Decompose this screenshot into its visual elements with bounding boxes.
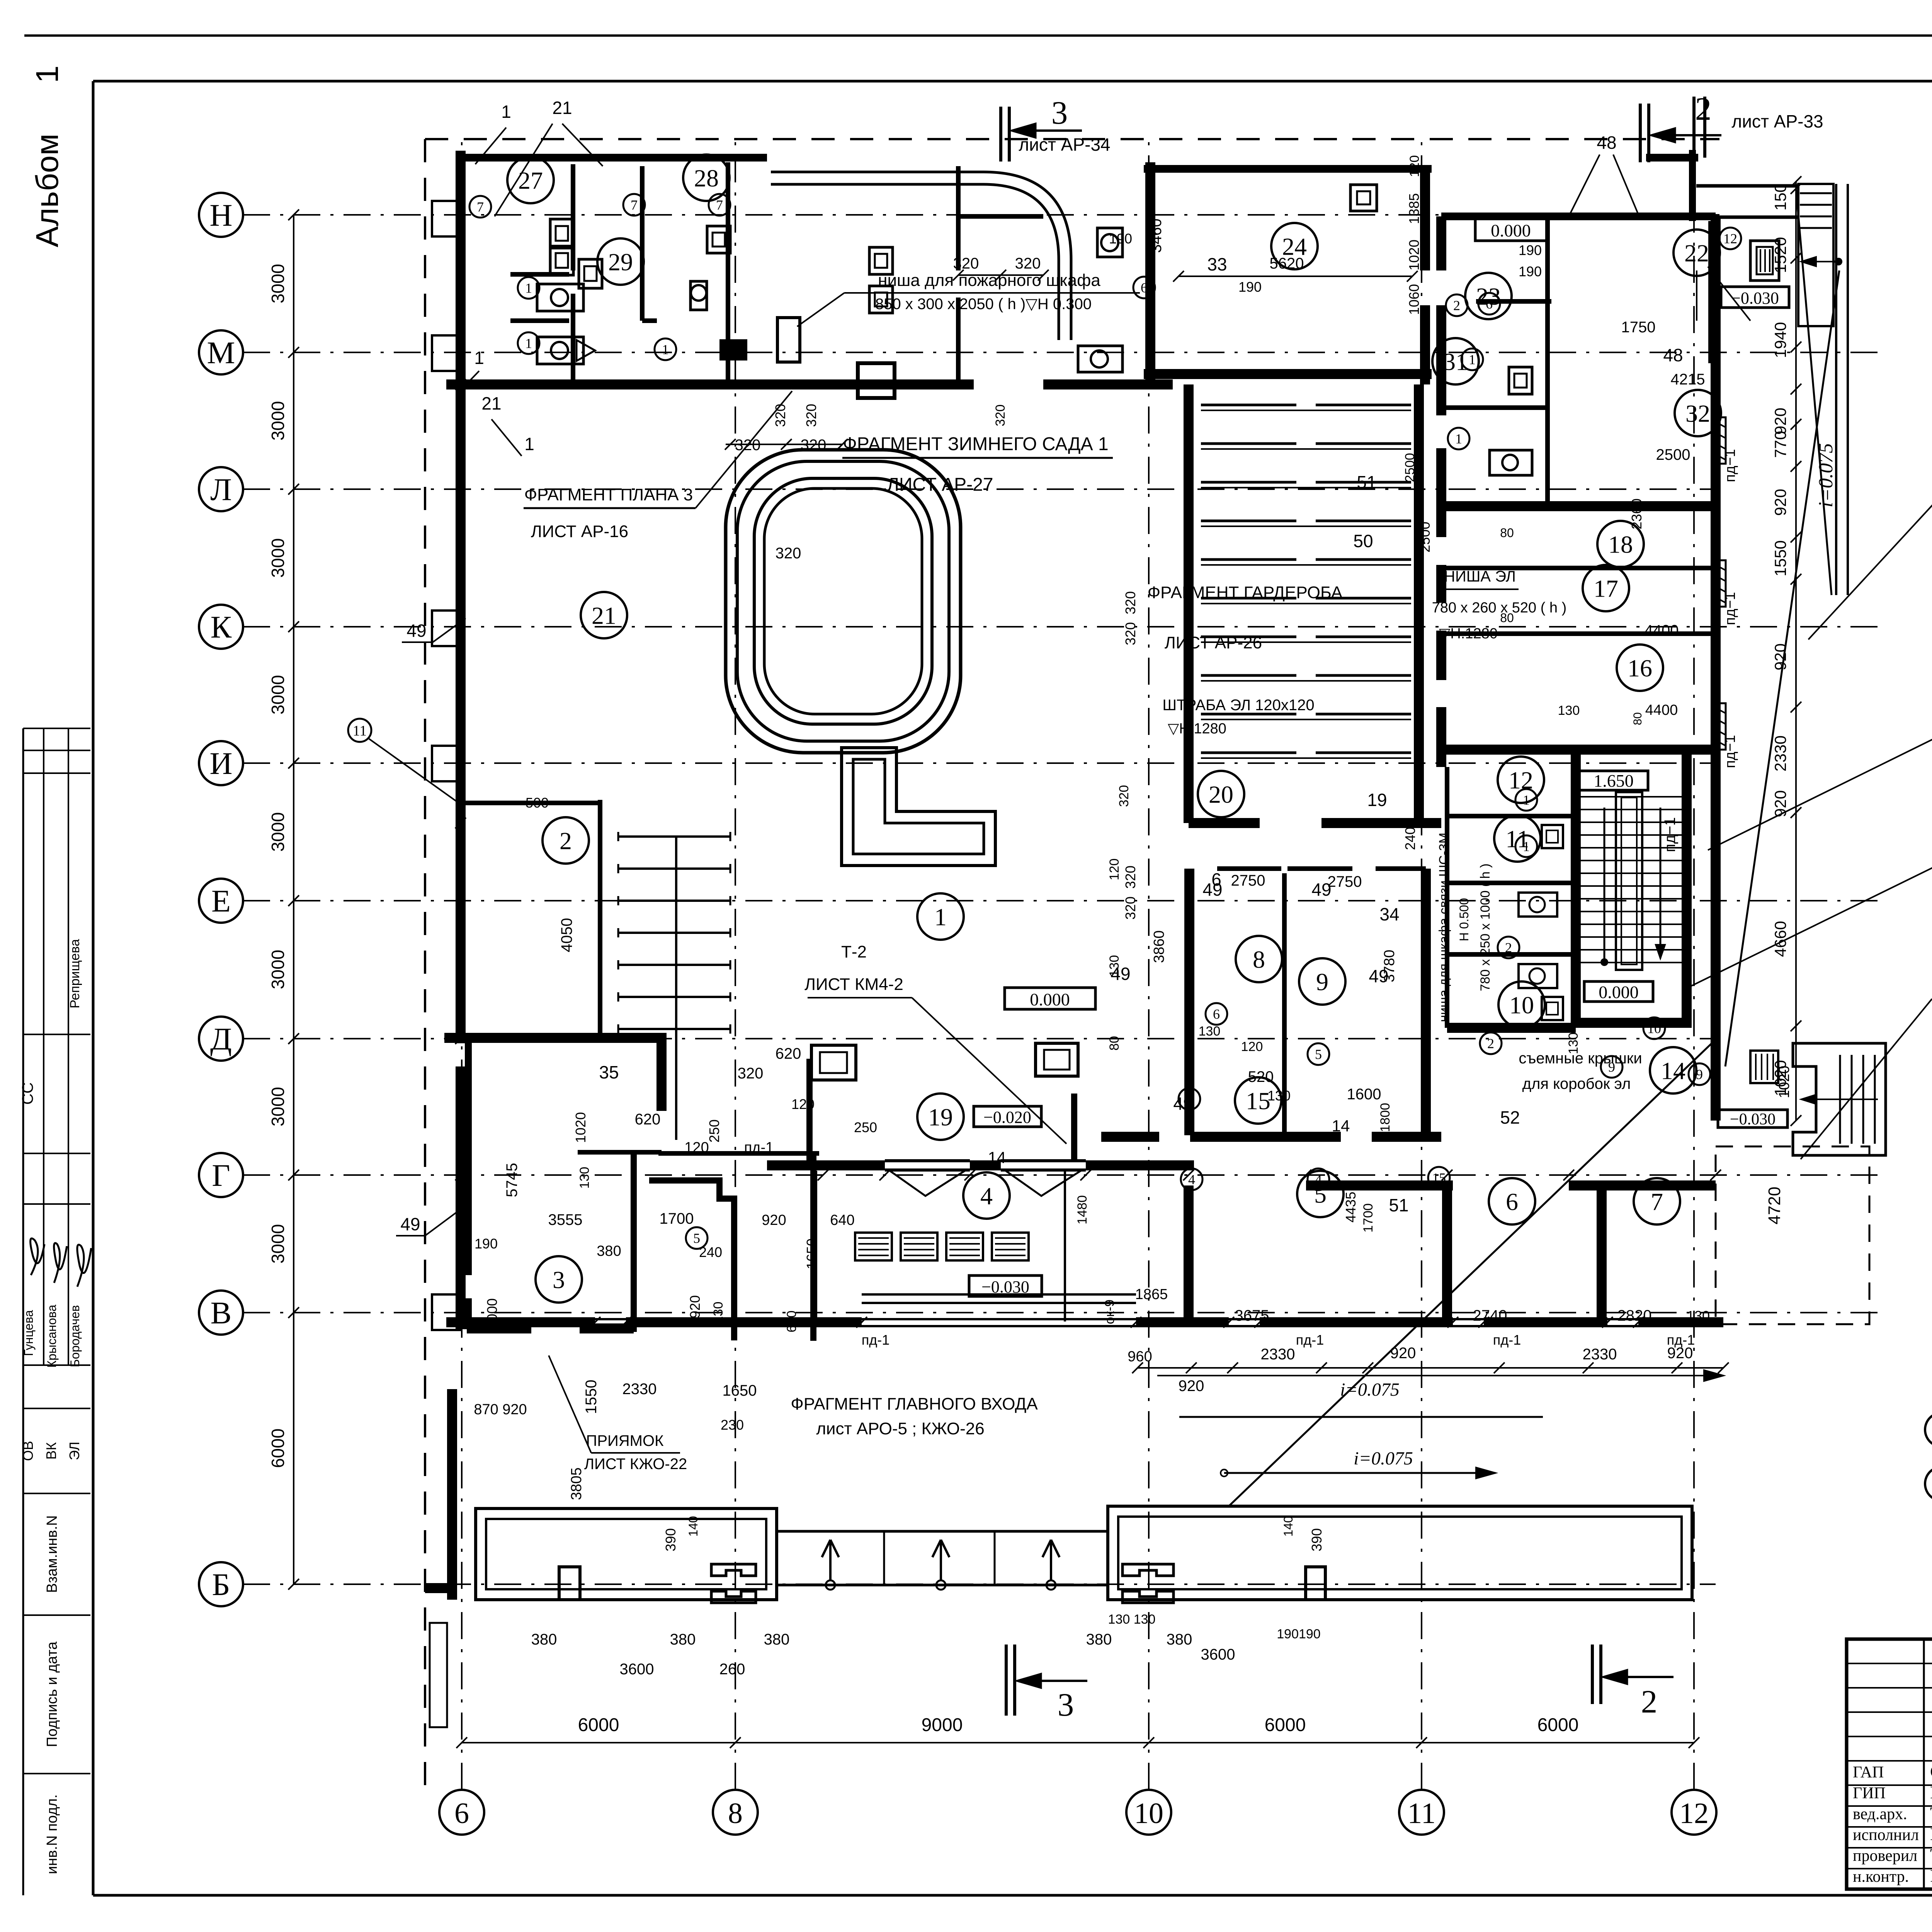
-0.020 box room19 [974,1106,1041,1127]
svg-text:130: 130 [1566,1032,1581,1054]
svg-text:ОВ: ОВ [20,1441,36,1461]
svg-text:80: 80 [1107,1036,1122,1051]
svg-text:1: 1 [1469,352,1476,367]
room 1 [917,893,964,940]
svg-text:2920: 2920 [687,1295,703,1326]
svg-text:5: 5 [1315,1047,1322,1062]
svg-text:Альбом: Альбом [30,134,65,247]
svg-text:4400: 4400 [1645,702,1678,718]
wardrobe south wall [1189,818,1260,828]
svg-text:34: 34 [1379,904,1399,924]
svg-text:620: 620 [635,1111,661,1128]
svg-text:6: 6 [1211,869,1221,889]
svg-text:21: 21 [552,98,572,118]
room 18 [1597,521,1644,567]
axis 8 [713,1790,758,1835]
svg-text:ПРИЯМОК: ПРИЯМОК [586,1432,664,1449]
svg-text:ЭЛ: ЭЛ [66,1442,82,1460]
grilles row [855,1233,892,1260]
svg-text:Смирнов: Смирнов [1930,1762,1932,1781]
svg-text:21: 21 [481,393,501,413]
svg-text:9: 9 [1316,968,1328,995]
wardrobe racks [1201,404,1296,406]
svg-text:320: 320 [1117,785,1131,807]
svg-text:240: 240 [699,1244,722,1260]
room24 dim line [1179,276,1412,277]
stair treads [1580,796,1683,798]
toilet partitions [571,164,575,270]
svg-text:500: 500 [526,795,549,811]
room 19 side walls [806,1059,813,1161]
svg-text:НИША ЭЛ: НИША ЭЛ [1444,568,1516,585]
svg-text:130: 130 [1267,1088,1291,1104]
svg-text:920: 920 [1771,790,1789,817]
room 11 [1494,815,1541,862]
svg-text:Г: Г [212,1158,230,1193]
svg-text:380: 380 [531,1631,557,1648]
svg-text:140: 140 [1281,1516,1295,1536]
svg-text:пд-1: пд-1 [862,1332,890,1348]
svg-text:80: 80 [1500,611,1514,625]
svg-text:3460: 3460 [1148,219,1165,253]
svg-text:380: 380 [764,1631,790,1648]
svg-text:380: 380 [670,1631,696,1648]
svg-text:ФРАГМЕНТ ЗИМНЕГО САДА 1: ФРАГМЕНТ ЗИМНЕГО САДА 1 [843,434,1108,454]
svg-text:1: 1 [525,281,532,296]
svg-text:1: 1 [525,336,532,351]
svg-text:17: 17 [1594,575,1618,602]
svg-text:320: 320 [772,404,788,427]
svg-text:320: 320 [1015,255,1041,272]
svg-text:Подпись и дата: Подпись и дата [44,1641,60,1747]
portico left [476,1509,777,1600]
svg-text:120: 120 [1241,1039,1263,1054]
svg-text:2500: 2500 [1417,522,1433,553]
svg-text:250: 250 [706,1119,722,1143]
svg-text:29: 29 [608,248,633,276]
svg-text:7: 7 [1651,1188,1663,1215]
svg-text:пд−1: пд−1 [1722,592,1738,625]
svg-text:Каледина: Каледина [1930,1782,1932,1802]
svg-text:49: 49 [406,621,426,641]
svg-text:1020: 1020 [1776,1066,1793,1099]
svg-text:16: 16 [1628,654,1652,682]
svg-text:8: 8 [1253,946,1265,973]
room 9 [1299,958,1345,1005]
svg-text:1020: 1020 [573,1112,588,1143]
svg-text:130: 130 [1107,955,1122,977]
room2 walls [598,800,602,1039]
svg-text:7: 7 [477,199,484,215]
svg-text:6: 6 [1141,280,1148,296]
axis М [199,330,243,374]
svg-text:260: 260 [719,1661,745,1678]
svg-text:22: 22 [1684,239,1709,267]
svg-text:320: 320 [803,404,819,427]
section marker 3 top [999,107,1002,162]
svg-text:15: 15 [1246,1087,1270,1114]
leader lines top left [475,128,506,164]
svg-text:6: 6 [454,1797,469,1830]
room 27 [507,157,554,203]
room 17 [1583,565,1629,611]
G axis wall [767,1160,885,1170]
svg-text:4215: 4215 [1671,371,1705,388]
svg-text:6: 6 [1486,296,1493,312]
svg-text:20: 20 [1209,781,1233,808]
svg-text:3675: 3675 [1235,1307,1269,1324]
svg-text:6: 6 [1213,1007,1220,1022]
svg-text:2330: 2330 [1261,1346,1295,1363]
hall planter 1 [726,450,961,753]
svg-text:8: 8 [728,1797,743,1830]
entrance doors G [885,1159,970,1162]
toilet fixtures [537,284,583,311]
svg-text:лист АР-34: лист АР-34 [1019,134,1110,155]
svg-text:0.000: 0.000 [1491,221,1531,240]
room 19 [917,1094,964,1140]
hall 0.000 box [1005,988,1095,1009]
room 21 [581,592,627,638]
svg-text:ЛИСТ АР-16: ЛИСТ АР-16 [531,522,628,541]
room 16 [1617,645,1663,691]
svg-text:0.000: 0.000 [1599,982,1639,1002]
svg-text:4: 4 [1315,1172,1322,1187]
svg-text:Взам.инв.N: Взам.инв.N [44,1515,60,1593]
svg-text:9: 9 [1696,1067,1703,1082]
svg-text:И: И [209,746,232,781]
svg-text:1650: 1650 [723,1382,757,1399]
svg-text:6000: 6000 [1537,1715,1579,1735]
svg-text:1600: 1600 [1347,1086,1381,1103]
svg-text:проверил: проверил [1853,1847,1917,1865]
svg-text:640: 640 [830,1212,854,1228]
svg-text:пд−1: пд−1 [1722,449,1738,482]
svg-text:2750: 2750 [1231,872,1265,889]
svg-text:ФРАГМЕНТ ГЛАВНОГО ВХОДА: ФРАГМЕНТ ГЛАВНОГО ВХОДА [791,1395,1038,1413]
svg-text:2405: 2405 [1402,819,1418,850]
svg-text:120: 120 [684,1139,709,1156]
svg-text:2750: 2750 [1328,873,1362,890]
axis Г [199,1153,243,1197]
svg-text:320: 320 [776,545,801,562]
axis 12 [1672,1790,1716,1835]
svg-text:1: 1 [1523,793,1530,808]
portico right [1108,1506,1692,1600]
svg-text:2: 2 [560,827,572,854]
svg-text:7: 7 [716,197,723,213]
svg-text:3000: 3000 [268,675,288,714]
svg-text:50: 50 [1353,531,1373,551]
svg-text:190: 190 [1519,242,1542,258]
-0.030 box ne [1721,287,1789,308]
svg-text:3600: 3600 [620,1661,654,1678]
svg-text:4: 4 [980,1182,993,1209]
svg-text:вед.арх.: вед.арх. [1853,1805,1907,1823]
svg-text:780 x 250 x 1000 ( h ): 780 x 250 x 1000 ( h ) [1478,864,1493,992]
corridor curved wall [771,172,1071,340]
wardrobe walls [1184,384,1194,823]
axis Е [199,879,243,923]
svg-text:3805: 3805 [568,1468,585,1500]
svg-text:120: 120 [1407,155,1422,177]
svg-text:Талызина: Талызина [1930,1845,1932,1865]
svg-text:11: 11 [353,723,367,739]
svg-text:1.650: 1.650 [1594,771,1634,791]
svg-text:3000: 3000 [268,538,288,578]
svg-text:Крысанова: Крысанова [45,1304,59,1367]
svg-text:80: 80 [1500,526,1514,540]
bottom dimension string [462,1742,1694,1743]
svg-text:52: 52 [1500,1107,1520,1128]
svg-text:лист АР-33: лист АР-33 [1731,111,1823,131]
rooms 8 9 walls [1217,866,1281,871]
room 24 walls [1145,162,1155,384]
svg-text:10: 10 [1134,1797,1163,1830]
svg-text:2330: 2330 [1771,735,1789,771]
svg-text:120: 120 [1107,859,1122,881]
svg-text:1: 1 [1523,839,1530,854]
svg-text:ФРАГМЕНТ ПЛАНА 3: ФРАГМЕНТ ПЛАНА 3 [524,485,693,504]
svg-text:130: 130 [577,1167,592,1189]
svg-text:ГАП: ГАП [1853,1764,1884,1781]
room 6 [1489,1178,1535,1225]
svg-text:19: 19 [928,1103,953,1131]
svg-text:1550: 1550 [1771,540,1789,576]
svg-text:190: 190 [1109,231,1132,247]
dim line above planter [726,444,842,445]
D axis wall [444,1033,667,1043]
svg-text:130: 130 [711,1302,726,1324]
door swing toilets [577,340,595,361]
room 3 [536,1256,582,1303]
svg-text:6000: 6000 [1265,1715,1306,1735]
svg-text:1: 1 [934,903,947,930]
svg-text:1: 1 [524,434,534,454]
svg-text:2500: 2500 [1656,446,1690,463]
svg-text:−0.030: −0.030 [1730,1111,1776,1128]
svg-text:14: 14 [1332,1117,1350,1135]
svg-text:3: 3 [553,1266,565,1293]
room 31 [1432,338,1479,384]
svg-text:Б: Б [212,1567,230,1602]
svg-text:пд-1: пд-1 [1667,1332,1695,1348]
svg-text:870 920: 870 920 [474,1401,527,1418]
svg-text:3: 3 [1058,1687,1074,1723]
svg-text:190: 190 [1519,264,1542,279]
svg-text:3600: 3600 [1201,1646,1235,1663]
west wall axis6 [456,151,466,1043]
B axis wall windows [446,1317,595,1327]
svg-text:27: 27 [518,167,543,194]
svg-text:5745: 5745 [503,1163,520,1197]
axis К [199,605,243,649]
svg-text:49: 49 [1311,879,1331,900]
svg-text:пд-1: пд-1 [1296,1332,1324,1348]
axis Н [199,193,243,237]
svg-text:320: 320 [993,405,1008,427]
svg-text:12: 12 [1723,231,1737,247]
svg-text:Талызина: Талызина [1930,1803,1932,1823]
room 10 [1498,981,1545,1028]
svg-text:770: 770 [1771,431,1789,458]
svg-text:21: 21 [592,602,616,629]
svg-text:14: 14 [1661,1057,1685,1084]
svg-text:▽Н.1280: ▽Н.1280 [1168,721,1226,737]
dim row below B wall [1138,1367,1723,1369]
svg-text:пд-1: пд-1 [744,1139,774,1156]
room 7 [1634,1178,1680,1225]
sheet frame [24,34,1932,37]
svg-text:11: 11 [1407,1797,1435,1830]
svg-text:380: 380 [1167,1631,1192,1648]
svg-text:520: 520 [1248,1068,1274,1085]
svg-text:1940: 1940 [1771,322,1789,358]
svg-text:СС: СС [19,1082,36,1105]
svg-text:лист АРО-5 ; КЖО-26: лист АРО-5 ; КЖО-26 [816,1419,985,1438]
svg-text:320: 320 [1122,591,1138,614]
title block [1847,1639,1932,1889]
svg-text:1: 1 [1455,431,1462,447]
svg-text:2820: 2820 [1617,1307,1652,1324]
svg-text:ЛИСТ КЖО-22: ЛИСТ КЖО-22 [584,1456,687,1473]
svg-text:исполнил: исполнил [1853,1826,1919,1844]
svg-text:32: 32 [1685,400,1710,427]
svg-text:ФРАГМЕНТ ГАРДЕРОБА: ФРАГМЕНТ ГАРДЕРОБА [1148,583,1343,602]
axis 6 [439,1790,484,1835]
svg-text:1750: 1750 [1621,319,1656,336]
svg-text:6: 6 [1506,1188,1518,1215]
axis Б [199,1562,243,1606]
room 2 [543,817,589,864]
svg-text:920: 920 [1771,408,1789,435]
room 8 [1236,936,1282,982]
room 4 [963,1172,1010,1219]
svg-text:1000: 1000 [484,1298,500,1329]
svg-text:▽Н.1280: ▽Н.1280 [1439,626,1498,642]
svg-text:6000: 6000 [268,1429,288,1468]
vestibule stepped walls [649,1180,734,1340]
svg-text:1060: 1060 [1406,284,1422,315]
svg-text:1700: 1700 [660,1210,694,1227]
svg-text:Д: Д [210,1021,232,1056]
svg-text:4720: 4720 [1765,1187,1784,1225]
svg-text:780 x 260 x 520 ( h ): 780 x 260 x 520 ( h ) [1432,600,1567,616]
-0.030 stair box [1718,1110,1787,1128]
svg-text:ЛИСТ АР-27: ЛИСТ АР-27 [887,474,993,495]
entrance 9 steps [1798,184,1833,326]
-0.030 box vestibule [969,1276,1042,1296]
toilet block walls [456,154,767,162]
svg-text:6000: 6000 [578,1715,619,1735]
svg-text:320: 320 [738,1065,764,1082]
svg-text:К: К [211,609,232,645]
svg-text:ВК: ВК [43,1442,59,1459]
room 24 tv box [1350,185,1377,211]
svg-text:Л: Л [210,472,232,507]
svg-text:1: 1 [474,348,484,368]
svg-text:3000: 3000 [268,401,288,440]
wc cluster 12 11 10 [1445,767,1449,1028]
svg-text:190: 190 [1238,279,1262,295]
svg-text:2: 2 [1453,298,1460,313]
svg-text:1550: 1550 [583,1380,600,1414]
svg-text:920: 920 [1771,489,1789,516]
svg-text:920: 920 [1390,1345,1416,1362]
svg-text:130: 130 [1558,703,1580,718]
room 12 [1498,757,1544,803]
svg-text:2: 2 [1487,1036,1494,1051]
svg-text:1020: 1020 [1406,240,1422,270]
room 24 [1271,223,1318,269]
svg-text:960: 960 [1128,1349,1152,1365]
svg-text:Реприщева: Реприщева [68,939,82,1009]
interior walls bottom rooms [1184,1185,1194,1322]
room 14 [1650,1047,1696,1094]
svg-text:49: 49 [1173,1094,1193,1114]
rooms 18 17 16 walls [1711,216,1721,1121]
svg-text:для коробок эл: для коробок эл [1522,1075,1631,1092]
svg-text:1: 1 [662,342,669,357]
svg-text:ниша для шкафа связи ШС-3М: ниша для шкафа связи ШС-3М [1437,833,1451,1022]
svg-text:51: 51 [1389,1195,1408,1215]
svg-text:3: 3 [1051,95,1068,131]
canopy long line [1157,1375,1723,1376]
small marker circles [469,196,491,218]
svg-text:2360: 2360 [1629,498,1645,529]
svg-text:1: 1 [30,65,65,83]
svg-text:380: 380 [597,1243,621,1259]
grille near stair [1750,1051,1778,1083]
right dim string [1795,182,1797,1121]
room 23 [1465,273,1512,319]
svg-text:390: 390 [663,1528,679,1551]
svg-text:5: 5 [693,1231,700,1246]
svg-text:н.контр.: н.контр. [1853,1868,1909,1886]
svg-text:33: 33 [1207,254,1227,274]
svg-text:Гунцева: Гунцева [22,1310,36,1356]
walkway [777,1530,1108,1533]
svg-text:1865: 1865 [1135,1286,1168,1303]
svg-text:1520: 1520 [1771,237,1789,273]
svg-text:ШТРАБА ЭЛ 120х120: ШТРАБА ЭЛ 120х120 [1162,697,1314,714]
svg-text:1: 1 [501,102,511,122]
entrance 10 porch [1793,1043,1886,1155]
svg-text:В: В [211,1295,232,1330]
svg-text:пд−1: пд−1 [1722,735,1738,768]
svg-text:320: 320 [1122,622,1138,645]
axis В [199,1291,243,1335]
east rooms walls 23 31 32 [1441,213,1716,220]
svg-text:i=0.075: i=0.075 [1354,1448,1413,1469]
svg-text:Е: Е [211,883,231,918]
svg-text:3000: 3000 [268,1224,288,1264]
vestibule side walls [815,1171,817,1321]
svg-text:i=0.075: i=0.075 [1815,443,1837,508]
corridor east doors [1716,417,1726,464]
svg-text:Романова: Романова [1930,1866,1932,1886]
svg-text:48: 48 [1663,345,1683,365]
room 32 [1675,390,1721,436]
svg-text:51: 51 [1357,472,1376,492]
dashed site boundary [425,138,1719,140]
key plan axis B [1925,1467,1932,1501]
room22 grille [1750,241,1779,281]
ticks along G and B walls [818,1170,828,1180]
svg-text:2330: 2330 [622,1381,657,1398]
svg-text:4400: 4400 [1645,622,1679,639]
svg-text:14: 14 [988,1148,1006,1167]
